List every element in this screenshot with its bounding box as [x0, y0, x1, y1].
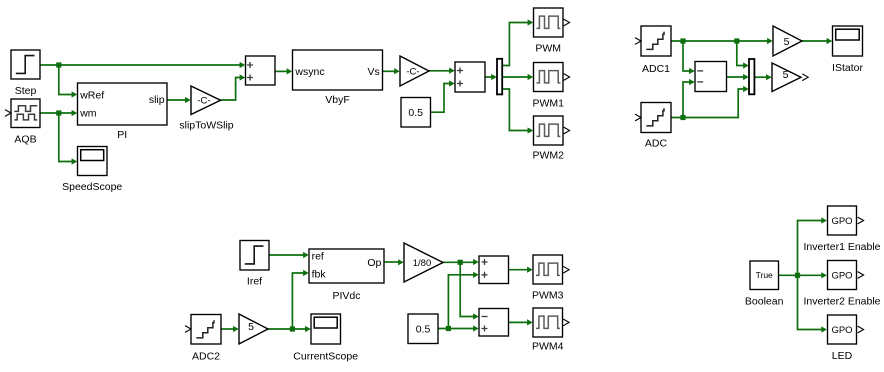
- svg-text:1/80: 1/80: [413, 258, 432, 269]
- wire constant 0.5b to Sum4 input 2: [438, 325, 479, 331]
- svg-text:VbyF: VbyF: [325, 94, 350, 106]
- constant 0.5 upper: [401, 98, 431, 128]
- wire ADC2 output to gain 5c: [221, 326, 239, 332]
- svg-text:PWM2: PWM2: [532, 150, 564, 162]
- svg-text:fbk: fbk: [312, 269, 327, 281]
- svg-text:GPO: GPO: [831, 325, 852, 336]
- svg-text:wsync: wsync: [294, 66, 324, 78]
- block AQB encoder: [5, 99, 40, 146]
- svg-text:Inverter1 Enable: Inverter1 Enable: [803, 241, 880, 253]
- gain 5 stator: [773, 26, 802, 56]
- svg-text:PWM: PWM: [535, 43, 561, 55]
- svg-text:5: 5: [784, 36, 790, 48]
- gain 1/80: [404, 243, 443, 282]
- sum Sum3: [479, 256, 509, 284]
- wire branch to SpeedScope input: [59, 113, 77, 165]
- gain slipToWSlip: [179, 86, 233, 132]
- svg-text:Inverter2 Enable: Inverter2 Enable: [803, 296, 880, 308]
- constant 0.5 lower: [408, 314, 438, 344]
- svg-text:IStator: IStator: [832, 62, 863, 74]
- block ADC1: [635, 26, 671, 75]
- block ADC2: [185, 315, 221, 363]
- junction on Step wire: [56, 62, 61, 67]
- wire ADC output to Mux input 3: [671, 86, 749, 118]
- wire Sum1 output to VbyF wsync input: [275, 68, 292, 74]
- block GPO2: [803, 261, 880, 308]
- wire AQB output to PI wm input: [40, 110, 77, 116]
- svg-text:True: True: [756, 270, 773, 280]
- svg-text:0.5: 0.5: [408, 107, 423, 119]
- demux Demux1: [497, 59, 502, 95]
- wire PIVdc Op output to gain 1/80: [384, 259, 404, 265]
- svg-text:ADC1: ADC1: [642, 63, 670, 75]
- block PI controller: [78, 83, 168, 141]
- svg-text:wRef: wRef: [79, 89, 104, 101]
- wire branch to PIVdc fbk input: [292, 270, 308, 329]
- sum Sum2: [455, 62, 485, 92]
- svg-text:LED: LED: [832, 350, 853, 362]
- wire Step output to Sum1 input 1: [40, 62, 245, 68]
- sum subtract minus-minus: [695, 62, 727, 92]
- svg-text:CurrentScope: CurrentScope: [293, 351, 358, 363]
- junction on 0.5b wire: [446, 326, 451, 331]
- wire gain -C- output to Sum2 input 1: [429, 68, 455, 74]
- svg-text:Vs: Vs: [368, 66, 380, 78]
- block Step source: [11, 50, 40, 97]
- mux Mux1: [749, 59, 754, 94]
- wire subtract output to Mux input 2: [727, 74, 749, 80]
- svg-text:AQB: AQB: [14, 134, 36, 146]
- svg-text:5: 5: [248, 321, 254, 333]
- junction on current wire: [290, 326, 295, 331]
- block VbyF: [293, 50, 383, 106]
- scope CurrentScope: [293, 314, 358, 363]
- wire slipToWSlip output to Sum1 input 2: [221, 74, 246, 100]
- wire gain 5 output to IStator scope: [802, 38, 832, 44]
- scope IStator: [832, 26, 863, 74]
- svg-text:PWM3: PWM3: [532, 290, 564, 302]
- junction on 1/80 wire: [458, 260, 463, 265]
- svg-text:ADC: ADC: [645, 138, 668, 150]
- wire branch to GPO1: [798, 217, 827, 275]
- svg-text:-C-: -C-: [406, 66, 419, 77]
- constant True Boolean: [745, 261, 784, 308]
- block GPO3: [828, 315, 864, 362]
- svg-text:PI: PI: [117, 129, 127, 141]
- wire Sum2 output to Demux input: [485, 74, 497, 80]
- wire gain 5c output to CurrentScope: [268, 326, 311, 332]
- svg-text:SpeedScope: SpeedScope: [62, 181, 122, 193]
- wire gain 1/80 output to Sum3 input 1: [443, 259, 479, 265]
- svg-text:Boolean: Boolean: [745, 296, 784, 308]
- junction on ADC wire: [680, 115, 685, 120]
- wire Demux output 3 to PWM2: [502, 89, 533, 134]
- svg-text:wm: wm: [79, 108, 97, 120]
- svg-text:ref: ref: [312, 251, 324, 263]
- wire branch to Mux input 1: [737, 41, 749, 69]
- wire branch 0.5b to Sum3 input 2: [448, 272, 478, 329]
- wire True output to GPO2: [779, 272, 827, 278]
- gain 5b unconnected: [772, 63, 808, 92]
- junction ADC1 wire branch A: [680, 38, 685, 43]
- block PWM3: [532, 255, 569, 302]
- wire constant 0.5 to Sum2 input 2: [431, 80, 455, 112]
- wire branch to GPO3: [798, 275, 827, 332]
- wire Sum4 output to PWM4: [509, 319, 533, 325]
- block Iref source: [240, 241, 269, 288]
- block PWM: [534, 8, 570, 55]
- wire Demux output 1 to PWM: [502, 19, 533, 65]
- svg-text:PIVdc: PIVdc: [332, 290, 360, 302]
- svg-text:slip: slip: [149, 94, 165, 106]
- block PWM1: [532, 63, 569, 110]
- wire Mux output to gain 5b: [754, 74, 771, 80]
- wire PI slip output to slipToWSlip gain: [167, 97, 191, 103]
- wire Sum3 output to PWM3: [509, 267, 533, 273]
- wire branch 1/80 to Sum4 input 1: [460, 262, 479, 319]
- svg-text:0.5: 0.5: [416, 323, 431, 335]
- block PWM2: [532, 116, 569, 162]
- svg-text:Iref: Iref: [247, 276, 262, 288]
- svg-text:-C-: -C-: [197, 95, 210, 106]
- gain 5c current: [239, 314, 268, 344]
- svg-text:PWM1: PWM1: [532, 98, 564, 110]
- wire branch to subtract input 2: [683, 79, 695, 118]
- wire Iref output to PIVdc ref input: [269, 252, 309, 258]
- svg-text:Step: Step: [15, 85, 37, 97]
- sum Sum1: [246, 56, 276, 85]
- block PWM4: [532, 308, 569, 353]
- wire branch to PI wRef input: [59, 65, 77, 98]
- gain -C- VbyF output: [400, 56, 429, 86]
- junction ADC1 wire branch B: [734, 38, 739, 43]
- block GPO1: [803, 206, 880, 253]
- svg-text:ADC2: ADC2: [192, 351, 220, 363]
- wire Demux output 2 to PWM1: [502, 74, 533, 80]
- block SpeedScope: [62, 147, 122, 194]
- svg-text:GPO: GPO: [831, 270, 852, 281]
- svg-text:5: 5: [783, 69, 789, 81]
- block ADC: [635, 103, 671, 150]
- wire VbyF Vs output to gain -C-: [383, 68, 400, 74]
- junction on True wire: [795, 273, 800, 278]
- wire branch to subtract input 1: [683, 41, 695, 74]
- svg-text:slipToWSlip: slipToWSlip: [179, 120, 233, 132]
- svg-text:Op: Op: [367, 257, 381, 269]
- sum Sum4: [479, 309, 509, 337]
- svg-text:GPO: GPO: [831, 216, 852, 227]
- svg-text:PWM4: PWM4: [532, 341, 564, 353]
- wire ADC1 output to gain 5: [671, 38, 773, 44]
- block PIVdc controller: [309, 249, 384, 302]
- junction on AQB wire: [56, 110, 61, 115]
